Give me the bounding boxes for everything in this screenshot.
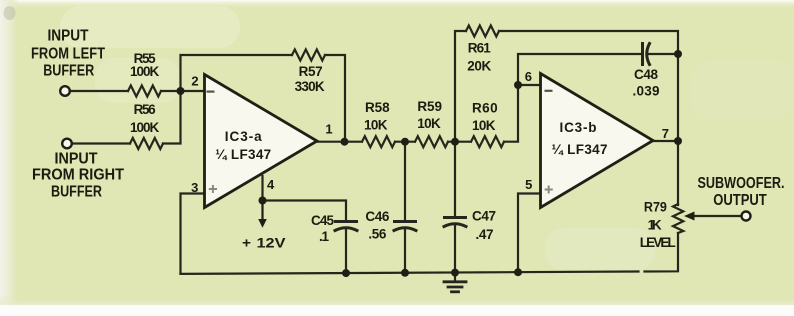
capacitor C46 <box>395 220 416 223</box>
capacitor C48 <box>641 44 644 65</box>
svg-text:R61: R61 <box>468 41 491 56</box>
wire R56 to node A vertical <box>163 91 181 144</box>
svg-text:R79: R79 <box>644 199 667 214</box>
wire C45 to bus <box>345 229 347 273</box>
wire node B up to R61 feedback <box>455 31 466 142</box>
wire R59 to R60 <box>448 141 471 143</box>
wire pin5 <box>518 194 541 273</box>
junction pin 7 <box>674 137 682 145</box>
svg-text:3: 3 <box>191 180 198 195</box>
resistor R57 <box>292 50 325 61</box>
svg-text:+: + <box>242 236 251 251</box>
svg-text:7: 7 <box>662 126 669 141</box>
op-amp U2 IC3-b <box>541 74 654 208</box>
resistor R55 <box>128 86 161 97</box>
op-amp b minus <box>545 90 553 92</box>
wire R55 to node A <box>161 90 205 92</box>
label IC3-a <box>215 129 271 162</box>
svg-text:INPUT: INPUT <box>48 27 89 44</box>
svg-text:100K: 100K <box>130 64 159 79</box>
wire right input to R56 <box>72 142 130 144</box>
op-amp a minus <box>207 91 215 93</box>
wire pin6 up to C48 <box>518 54 641 85</box>
op-amp b plus <box>545 186 553 194</box>
svg-text:1K: 1K <box>648 217 662 232</box>
svg-text:5: 5 <box>525 177 532 192</box>
svg-text:BUFFER: BUFFER <box>51 183 102 200</box>
junction pin 4 <box>259 197 267 205</box>
svg-text:C46: C46 <box>365 209 389 224</box>
junction bus C45 <box>342 269 350 277</box>
node B junction R59/R60 <box>451 138 459 146</box>
+12V arrow <box>258 219 267 228</box>
svg-text:.039: .039 <box>633 84 660 99</box>
junction R58/R59 <box>401 138 409 146</box>
svg-text:12V: 12V <box>257 236 286 251</box>
junction bus pin5 <box>514 268 522 276</box>
wire C47 to bus <box>454 225 456 273</box>
wire op-amp a output <box>317 141 362 143</box>
output terminal <box>742 212 751 221</box>
wire node A up to R57 feedback <box>181 55 293 91</box>
wire pin4 node to C45 <box>263 201 347 222</box>
input terminal right <box>62 139 72 149</box>
svg-text:100K: 100K <box>130 120 159 135</box>
svg-text:C48: C48 <box>634 67 658 82</box>
svg-text:SUBWOOFER.: SUBWOOFER. <box>698 175 785 192</box>
wire op-amp b output <box>653 140 678 142</box>
svg-text:.47: .47 <box>476 227 494 242</box>
svg-text:FROM RIGHT: FROM RIGHT <box>32 166 124 183</box>
wire C46 to bus <box>404 229 406 273</box>
resistor R61 <box>466 26 499 37</box>
label subwoofer output <box>698 175 785 209</box>
resistor R60 <box>471 136 504 147</box>
wire R60 to pin 6 <box>504 85 541 142</box>
wire left input to R55 <box>70 90 128 92</box>
wire R79 to ground bus <box>645 233 679 272</box>
svg-text:R60: R60 <box>472 100 498 115</box>
junction pin 6 <box>514 81 522 89</box>
op-amp U1 IC3-a <box>205 75 318 208</box>
op-amp a plus <box>209 185 217 193</box>
svg-text:4: 4 <box>267 177 275 192</box>
input terminal left <box>60 86 70 96</box>
wire pin7 down to R79 <box>677 141 679 205</box>
potentiometer R79 <box>673 204 683 233</box>
label input right <box>32 150 124 200</box>
svg-text:C45: C45 <box>311 213 334 228</box>
node A junction <box>177 87 185 95</box>
junction bus C46 <box>401 269 409 277</box>
ground <box>454 273 456 282</box>
scan light blotches <box>60 6 240 48</box>
svg-text:¼ LF347: ¼ LF347 <box>215 147 271 162</box>
label input left <box>31 27 105 79</box>
svg-text:FROM LEFT: FROM LEFT <box>31 45 105 62</box>
resistor R59 <box>415 136 448 147</box>
label IC3-b <box>552 120 608 157</box>
svg-text:R56: R56 <box>134 102 156 117</box>
pin numbers <box>191 69 669 195</box>
svg-text:C47: C47 <box>472 209 496 224</box>
svg-text:IC3-b: IC3-b <box>560 120 597 135</box>
resistor R56 <box>130 138 163 149</box>
svg-text:20K: 20K <box>467 58 491 73</box>
wire C46 top <box>404 142 406 221</box>
wire R58 to R59 <box>395 141 415 143</box>
wire wiper to output terminal <box>690 215 741 217</box>
capacitor C47 <box>445 216 466 219</box>
svg-text:6: 6 <box>525 69 532 84</box>
svg-text:R57: R57 <box>299 64 323 79</box>
wiper arrow R79 <box>684 212 695 221</box>
svg-text:LEVEL: LEVEL <box>640 235 676 250</box>
svg-text:INPUT: INPUT <box>55 150 98 167</box>
svg-text:1: 1 <box>325 122 332 137</box>
wire R57 to output node <box>325 55 345 142</box>
svg-text:OUTPUT: OUTPUT <box>713 192 767 209</box>
wire R61 to pin7 branch <box>499 31 678 141</box>
capacitor C45 <box>336 220 357 223</box>
resistor R58 <box>362 136 395 147</box>
svg-text:10K: 10K <box>364 117 388 132</box>
svg-text:R59: R59 <box>417 99 442 114</box>
svg-text:.1: .1 <box>319 229 329 244</box>
wire pin3 <box>181 194 205 274</box>
svg-text:10K: 10K <box>417 116 441 131</box>
output node op-amp a junction <box>341 138 349 146</box>
svg-text:.56: .56 <box>368 226 386 241</box>
svg-text:BUFFER: BUFFER <box>43 62 94 79</box>
wire C47 top <box>454 142 456 217</box>
svg-text:10K: 10K <box>472 118 496 133</box>
svg-text:R58: R58 <box>365 100 390 115</box>
scan smudge top-left <box>4 6 16 20</box>
+12V arrow stem <box>261 201 263 222</box>
wire C48 to right vertical <box>648 53 678 55</box>
svg-text:¼ LF347: ¼ LF347 <box>552 142 608 157</box>
svg-text:IC3-a: IC3-a <box>225 129 262 144</box>
junction bus ground <box>451 269 459 277</box>
wire pin4 supply <box>261 176 263 201</box>
svg-text:2: 2 <box>191 74 198 89</box>
svg-text:330K: 330K <box>295 79 325 94</box>
junction C48 right <box>674 50 682 58</box>
